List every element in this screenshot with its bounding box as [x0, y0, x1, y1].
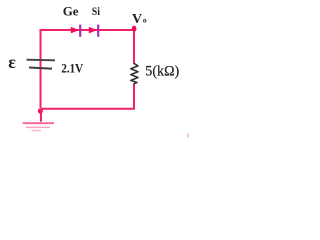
svg-text:Ge: Ge	[63, 4, 79, 19]
ground stub	[40, 109, 42, 122]
wire right lower (resistor to bottom corner)	[133, 84, 135, 110]
svg-text:5(kΩ): 5(kΩ)	[145, 63, 179, 79]
ground bar 2	[26, 126, 50, 128]
node ground junction	[38, 108, 43, 113]
diode D1 Ge: triangle	[71, 27, 79, 34]
diode D2 Si: cathode bar	[97, 25, 99, 37]
svg-text:2.1V: 2.1V	[61, 61, 83, 76]
wire left (battery branch)	[40, 29, 42, 108]
svg-text:Si: Si	[92, 5, 100, 18]
wire right upper (Vo node to resistor)	[133, 29, 135, 64]
ground bar 1	[23, 122, 55, 124]
ground bar 3	[32, 130, 42, 132]
resistor R (5 kOhm) zigzag	[131, 64, 138, 84]
diode D1 Ge: cathode bar	[79, 25, 81, 37]
svg-text:V: V	[132, 12, 142, 27]
diode D2 Si: triangle	[89, 27, 97, 34]
stray pink artifact mark	[187, 133, 189, 138]
battery top plate (long)	[27, 59, 56, 62]
wire bottom	[41, 108, 135, 110]
node Vo junction	[132, 26, 137, 32]
svg-text:o: o	[143, 15, 147, 24]
svg-text:ε: ε	[8, 52, 16, 72]
wire top (from battery + to diodes to Vo node)	[41, 29, 135, 31]
battery bottom plate (short)	[29, 68, 52, 69]
